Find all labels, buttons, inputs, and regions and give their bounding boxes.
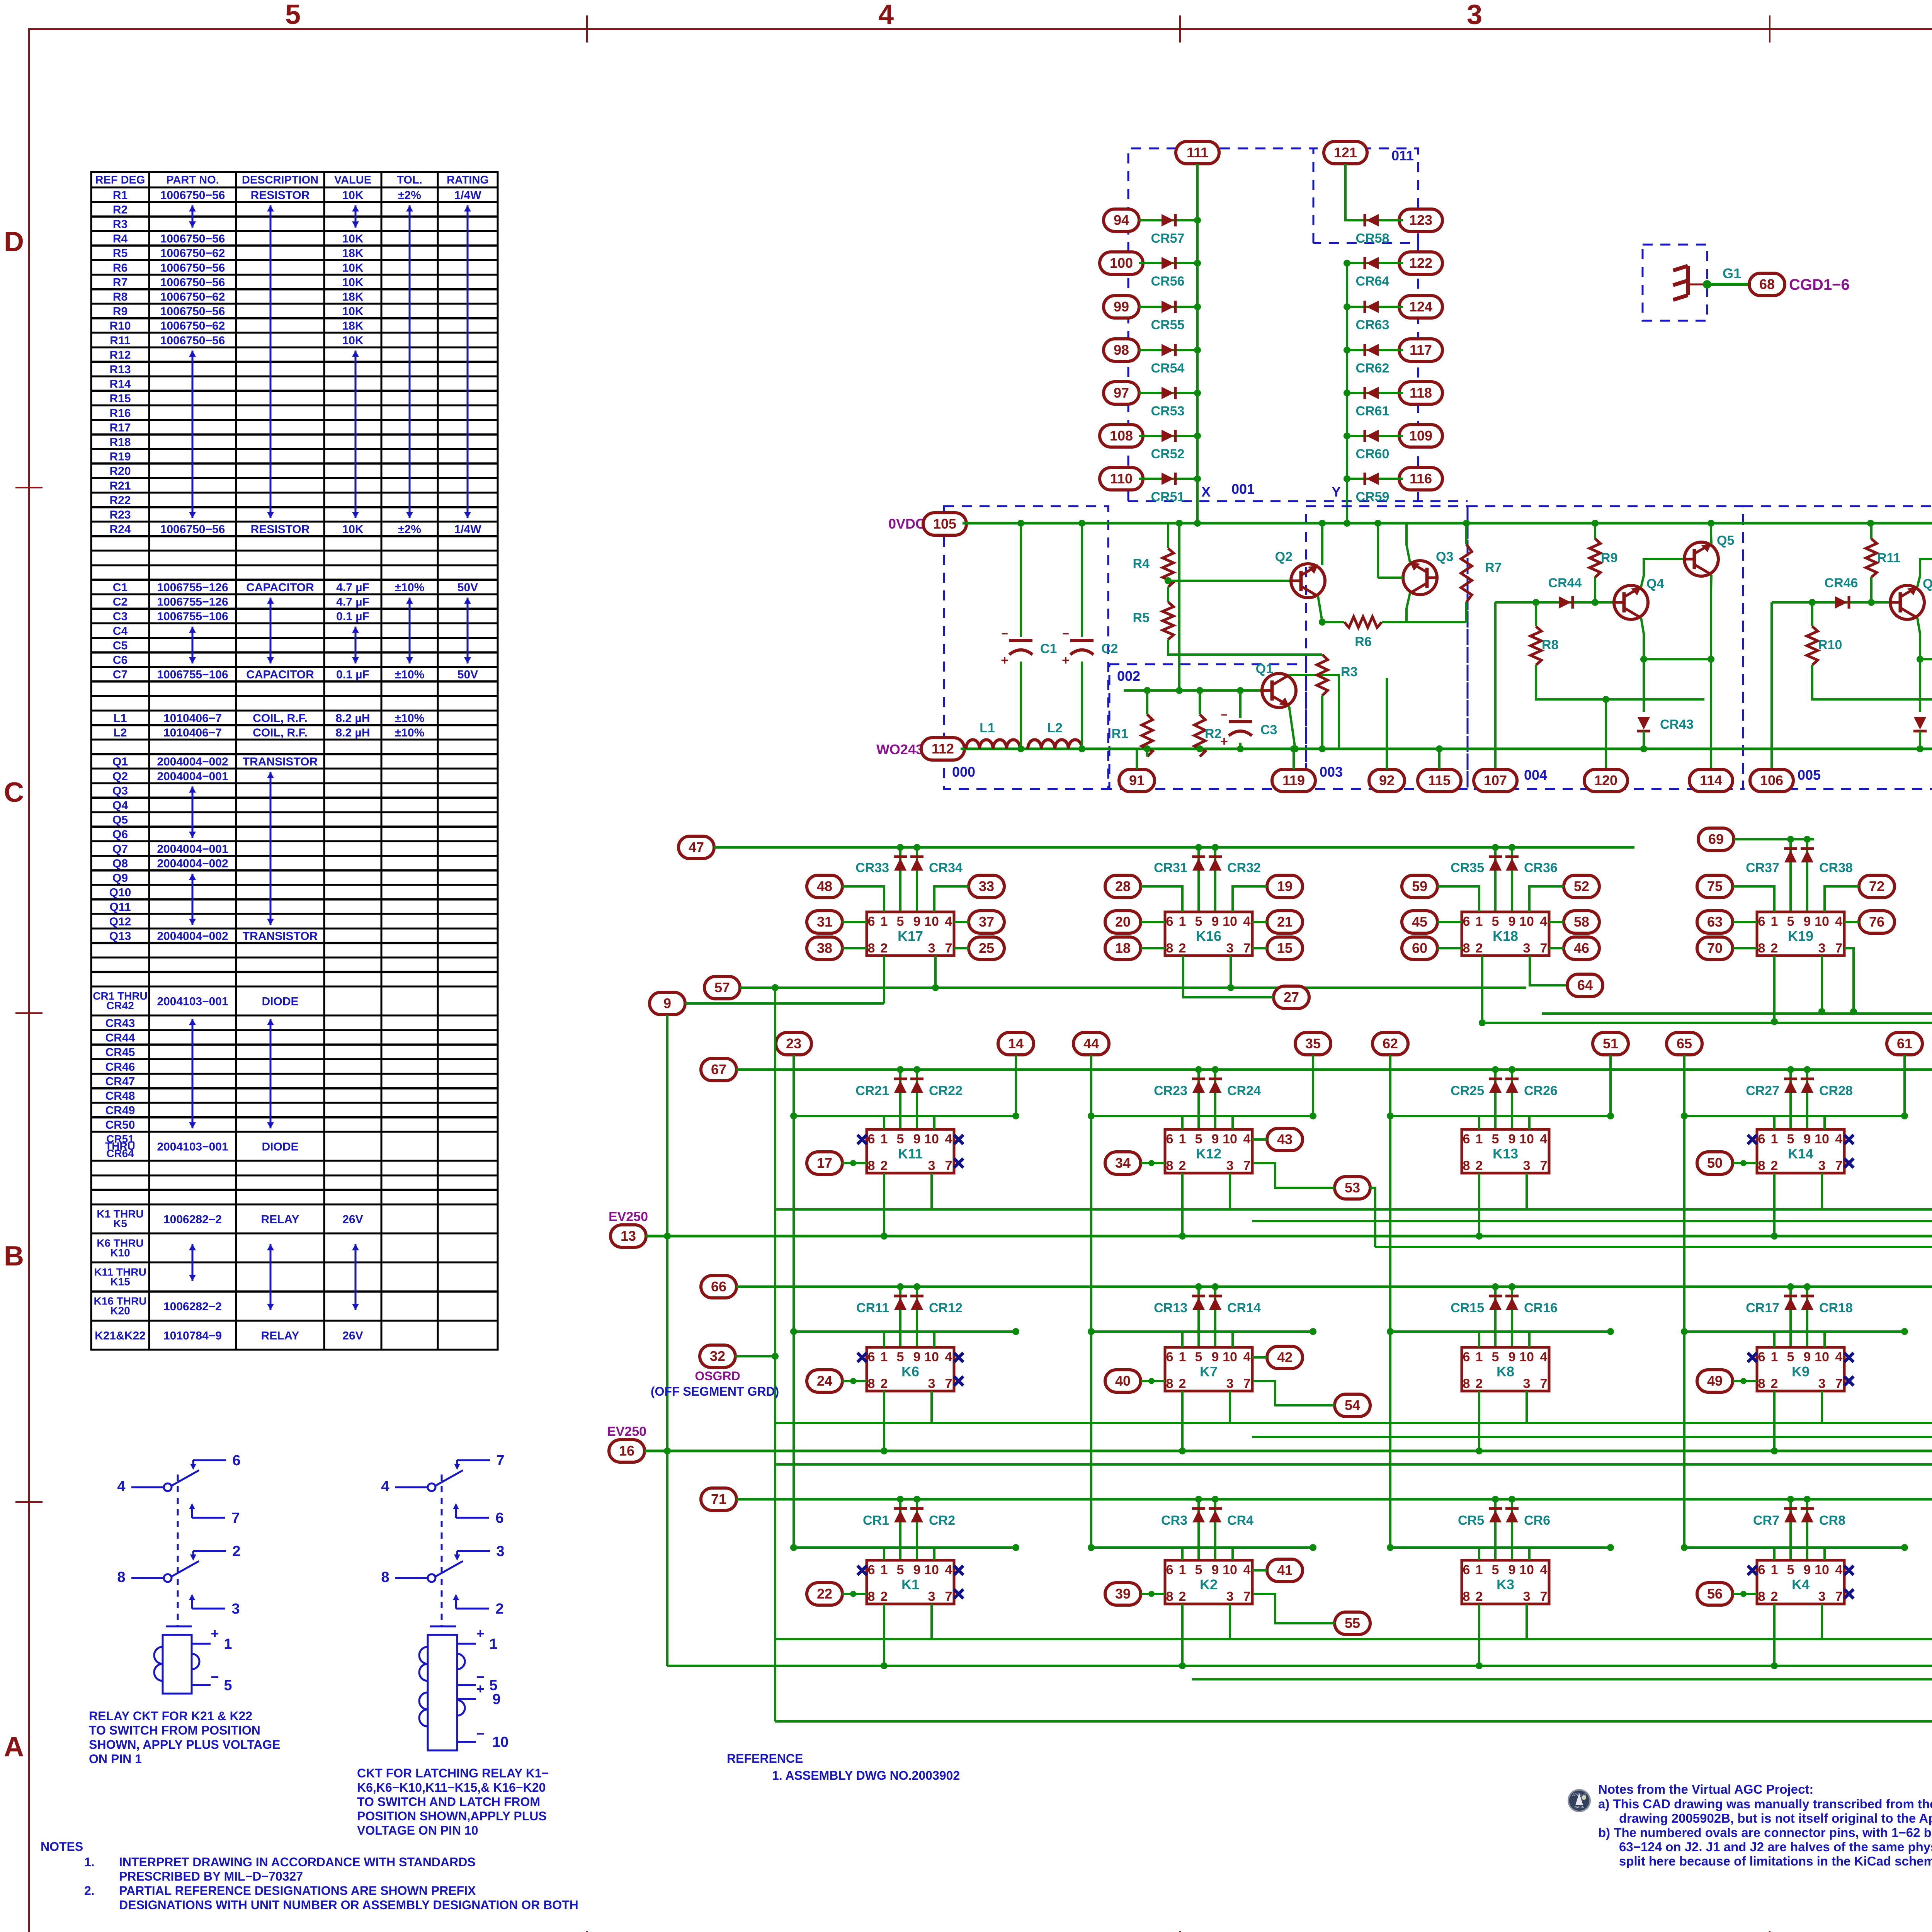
svg-text:1: 1	[1179, 914, 1186, 929]
svg-text:5: 5	[285, 0, 301, 30]
svg-text:C3: C3	[113, 610, 128, 623]
svg-text:R21: R21	[109, 480, 131, 492]
transistor Q6	[1890, 585, 1924, 619]
svg-text:DESIGNATIONS WITH UNIT NUMBER: DESIGNATIONS WITH UNIT NUMBER OR ASSEMBL…	[119, 1898, 578, 1912]
pin 32	[700, 1345, 735, 1367]
svg-text:CR13: CR13	[1154, 1301, 1187, 1315]
wire K19 pin3 drop	[1821, 956, 1823, 1012]
junction CR34	[913, 844, 920, 851]
svg-text:K9: K9	[1792, 1364, 1810, 1379]
svg-text:98: 98	[1114, 342, 1129, 358]
pin 23	[776, 1032, 811, 1055]
dashed box 002	[1109, 664, 1306, 789]
svg-text:001: 001	[1231, 481, 1255, 497]
wire 44 drop	[1090, 1055, 1092, 1116]
svg-text:8: 8	[117, 1569, 125, 1585]
wire 92 up	[1386, 678, 1388, 769]
wire CR44 input rail	[1495, 601, 1526, 604]
wire K8 pin2 drop	[1478, 1391, 1480, 1451]
svg-text:59: 59	[1412, 878, 1427, 894]
svg-text:C2: C2	[1101, 641, 1118, 656]
svg-text:K6,K6−K10,K11−K15,& K16−K20: K6,K6−K10,K11−K15,& K16−K20	[357, 1781, 546, 1794]
wire 94 to CR57	[1139, 219, 1197, 221]
wire R9 vertical	[1594, 523, 1596, 539]
svg-text:40: 40	[1115, 1373, 1131, 1389]
wire 48 to pin1	[842, 886, 884, 912]
svg-text:10: 10	[1815, 1563, 1829, 1577]
junction G1	[1703, 280, 1711, 289]
svg-text:60: 60	[1412, 940, 1427, 956]
svg-text:CR12: CR12	[929, 1301, 963, 1315]
svg-text:2004004−002: 2004004−002	[157, 755, 228, 768]
svg-text:8.2 µH: 8.2 µH	[336, 712, 370, 724]
wire vertical 1727	[666, 1236, 668, 1451]
junction CR17	[1787, 1283, 1794, 1290]
svg-text:K14: K14	[1788, 1146, 1813, 1162]
wire CR2 anode	[916, 1499, 918, 1560]
wire mid drop CR43	[1643, 659, 1645, 699]
svg-text:EV250: EV250	[607, 1424, 646, 1439]
svg-text:0.1 µF: 0.1 µF	[336, 668, 369, 681]
svg-text:24: 24	[817, 1373, 832, 1389]
junction C3 top	[1237, 687, 1244, 694]
svg-text:R20: R20	[109, 465, 131, 478]
wire minibus K6	[794, 1330, 1016, 1333]
wire vertical 1727 low	[666, 1451, 668, 1666]
wire 100 to CR56	[1139, 262, 1197, 264]
pin 63	[1697, 911, 1733, 933]
relay K1	[867, 1560, 954, 1604]
svg-text:CR42: CR42	[106, 1000, 134, 1012]
svg-text:Q11: Q11	[109, 901, 131, 913]
svg-text:65: 65	[1677, 1036, 1692, 1051]
svg-text:7: 7	[496, 1452, 504, 1469]
svg-text:1006750−56: 1006750−56	[160, 334, 225, 347]
svg-text:5: 5	[1195, 1132, 1202, 1146]
relay K7	[1165, 1347, 1252, 1391]
wire K9 pin10 stub	[1823, 1332, 1826, 1347]
diode CR64	[1366, 257, 1379, 269]
svg-text:CR34: CR34	[929, 861, 963, 875]
svg-text:50: 50	[1707, 1155, 1723, 1171]
svg-text:39: 39	[1115, 1586, 1131, 1602]
wire CR38 anode	[1806, 839, 1808, 912]
svg-text:105: 105	[933, 516, 956, 532]
svg-text:10: 10	[924, 914, 939, 929]
wire K1 pin2 drop	[883, 1604, 885, 1666]
svg-text:6: 6	[1166, 1350, 1173, 1364]
pin 34	[1105, 1152, 1141, 1174]
pin 38	[807, 937, 842, 959]
diode CR16	[1506, 1298, 1518, 1310]
junction CR28	[1804, 1066, 1811, 1073]
svg-text:2004103−001: 2004103−001	[157, 1141, 228, 1153]
svg-text:CR17: CR17	[1746, 1301, 1779, 1315]
wire 107 vertical	[1494, 602, 1497, 769]
junction CR16	[1509, 1283, 1515, 1290]
pin 39	[1105, 1583, 1141, 1605]
diode CR25	[1489, 1080, 1502, 1093]
wire K4 pin1 stub	[1773, 1548, 1776, 1560]
wire row1 right link 2618	[1542, 1012, 1932, 1015]
svg-text:CR51: CR51	[1151, 490, 1185, 504]
svg-text:13: 13	[621, 1228, 636, 1244]
diode CR32	[1209, 858, 1221, 871]
svg-text:8: 8	[1166, 1589, 1173, 1604]
wire CR18 anode	[1806, 1287, 1808, 1347]
junction X CR55	[1194, 303, 1201, 310]
wire K11 pin3 drop	[930, 1173, 933, 1209]
wire Q6 collector	[1917, 559, 1932, 587]
pin 105	[923, 513, 966, 535]
junction X CR52	[1194, 432, 1201, 439]
svg-text:67: 67	[711, 1061, 726, 1077]
svg-text:3: 3	[231, 1601, 240, 1617]
svg-text:5: 5	[224, 1677, 232, 1694]
pin 19	[1267, 875, 1303, 898]
wire Y column stub from 121	[1345, 164, 1347, 220]
pin 98	[1104, 339, 1139, 361]
wire CR62 to 117	[1347, 349, 1403, 351]
svg-text:C5: C5	[113, 639, 128, 652]
svg-text:2: 2	[232, 1543, 240, 1560]
wire 17 to pin8	[842, 1162, 867, 1164]
svg-text:8: 8	[1758, 1158, 1765, 1173]
junction Y CR62	[1344, 347, 1350, 354]
svg-text:2: 2	[1476, 1589, 1483, 1604]
svg-text:CR28: CR28	[1819, 1083, 1853, 1098]
junction base rail R2	[1196, 687, 1203, 694]
dashed box 003	[1306, 506, 1468, 789]
resistor R10	[1811, 602, 1813, 626]
wire CR58 to 123	[1347, 219, 1403, 221]
svg-text:1: 1	[224, 1636, 232, 1652]
wire CR31 anode	[1197, 847, 1200, 912]
wire CR8 anode	[1806, 1499, 1808, 1560]
wire pin4 to 21	[1252, 921, 1267, 923]
junction CR1	[897, 1496, 904, 1503]
svg-text:62: 62	[1383, 1036, 1398, 1051]
wire K19 pin2 drop	[1773, 956, 1776, 1022]
junction CR18	[1804, 1283, 1811, 1290]
wire minibus K3	[1390, 1546, 1611, 1549]
svg-text:NOTES: NOTES	[41, 1840, 83, 1854]
svg-text:2004004−001: 2004004−001	[157, 770, 228, 783]
svg-text:Q3: Q3	[112, 784, 128, 797]
wire K2 pin10 stub	[1231, 1548, 1234, 1560]
svg-text:9: 9	[1804, 1132, 1811, 1146]
svg-text:R7: R7	[1485, 560, 1502, 575]
pin 122	[1399, 252, 1442, 274]
diode CR2	[911, 1510, 923, 1522]
svg-text:CR50: CR50	[105, 1119, 135, 1131]
svg-text:99: 99	[1114, 299, 1129, 315]
svg-text:CR4: CR4	[1227, 1513, 1253, 1528]
wire row3 under1b	[1252, 1436, 1932, 1438]
svg-text:32: 32	[710, 1348, 725, 1364]
svg-text:7: 7	[231, 1510, 240, 1526]
wire K2 pin2 drop	[1181, 1604, 1184, 1666]
svg-text:121: 121	[1334, 145, 1357, 160]
wire Q4 collector	[1641, 559, 1684, 587]
svg-text:CR1: CR1	[863, 1513, 889, 1528]
pin 71	[701, 1488, 736, 1510]
svg-text:R13: R13	[109, 363, 131, 376]
pin 47	[679, 836, 714, 859]
svg-text:7: 7	[1540, 1158, 1548, 1173]
svg-text:011: 011	[1391, 148, 1414, 163]
svg-text:2.: 2.	[84, 1884, 95, 1898]
svg-text:K16: K16	[1196, 928, 1221, 944]
chassis ground G1	[1673, 266, 1688, 300]
svg-text:7: 7	[1540, 1376, 1548, 1391]
svg-text:K19: K19	[1788, 928, 1813, 944]
diode CR59	[1366, 473, 1379, 485]
relay K17	[867, 912, 954, 956]
svg-text:Notes from the Virtual AGC Pro: Notes from the Virtual AGC Project:	[1598, 1782, 1813, 1796]
inductor L2	[1028, 740, 1082, 749]
junction Y CR59	[1344, 475, 1350, 482]
junction 0VDC bus	[1708, 520, 1714, 527]
pin 100	[1100, 252, 1143, 274]
svg-text:118: 118	[1410, 385, 1432, 401]
svg-text:1006755−106: 1006755−106	[157, 610, 228, 623]
svg-text:CR46: CR46	[105, 1061, 135, 1073]
svg-text:Q12: Q12	[109, 915, 131, 928]
junction R11 base	[1868, 599, 1875, 606]
pin 17	[807, 1152, 842, 1174]
svg-text:26V: 26V	[342, 1213, 363, 1226]
pin 70	[1697, 937, 1733, 959]
svg-text:109: 109	[1409, 428, 1432, 444]
wire K7 pin2 drop	[1181, 1391, 1184, 1451]
wire 51 drop	[1609, 1055, 1612, 1116]
svg-text:R11: R11	[1877, 551, 1901, 565]
wire K7 pin10 stub	[1231, 1332, 1234, 1347]
svg-text:8: 8	[1166, 1376, 1173, 1391]
svg-text:9: 9	[1804, 914, 1811, 929]
svg-text:±10%: ±10%	[395, 581, 425, 594]
wire K2 pin3 drop	[1229, 1604, 1231, 1639]
pin 75	[1697, 875, 1733, 898]
svg-text:38: 38	[817, 940, 832, 956]
pin 22	[807, 1583, 842, 1605]
junction Y CR61	[1344, 389, 1350, 396]
wire CR43 to bus	[1643, 731, 1645, 749]
wire R1 bottom	[1146, 749, 1148, 757]
wire CR4 anode	[1214, 1499, 1216, 1560]
svg-text:5: 5	[897, 1563, 904, 1577]
pin 121	[1324, 141, 1367, 164]
svg-text:±10%: ±10%	[395, 726, 425, 739]
svg-text:106: 106	[1760, 772, 1783, 788]
svg-text:split here because of limitati: split here because of limitations in the…	[1619, 1854, 1932, 1868]
svg-text:CR6: CR6	[1524, 1513, 1550, 1528]
sketch arm 1	[172, 1470, 199, 1486]
svg-text:Q6: Q6	[112, 828, 128, 841]
diode CR43	[1643, 699, 1645, 712]
junction R9 base	[1592, 599, 1599, 606]
svg-text:10: 10	[1223, 1350, 1237, 1364]
transistor Q4	[1614, 585, 1648, 619]
wire C2 vertical	[1081, 523, 1083, 637]
pin 14	[998, 1032, 1034, 1055]
svg-text:10: 10	[1519, 1563, 1534, 1577]
wire 119 up	[1293, 749, 1295, 769]
svg-text:CR14: CR14	[1227, 1301, 1261, 1315]
wire K14 pin2 drop	[1773, 1173, 1776, 1236]
pin 106	[1750, 769, 1793, 792]
pin 41	[1267, 1559, 1303, 1582]
svg-text:114: 114	[1700, 772, 1722, 788]
pin 111	[1176, 141, 1219, 164]
svg-text:CR59: CR59	[1356, 490, 1389, 504]
svg-text:C4: C4	[113, 625, 128, 638]
svg-text:26V: 26V	[342, 1329, 363, 1342]
diode CR57	[1162, 214, 1174, 226]
pin 49	[1697, 1370, 1733, 1392]
wire K9 pin1 stub	[1773, 1332, 1776, 1347]
wire K6 pin2 drop	[883, 1391, 885, 1451]
pin 50	[1697, 1152, 1733, 1174]
wire K14 pin3 drop	[1821, 1173, 1823, 1209]
junction X CR53	[1194, 389, 1201, 396]
junction CR15	[1492, 1283, 1499, 1290]
svg-text:10K: 10K	[342, 276, 363, 289]
junction CR6	[1509, 1496, 1515, 1503]
svg-text:−: −	[1062, 628, 1069, 640]
junction 0VDC bus	[1867, 520, 1874, 527]
svg-text:2004004−002: 2004004−002	[157, 857, 228, 870]
wire Q1 emitter	[1289, 706, 1295, 749]
svg-text:4: 4	[945, 1563, 952, 1577]
wire 65 drop	[1683, 1055, 1685, 1116]
svg-text:10: 10	[1815, 914, 1829, 929]
pin 37	[969, 911, 1004, 933]
svg-text:CR3: CR3	[1161, 1513, 1187, 1528]
wire Q5 emitter down	[1711, 575, 1711, 659]
svg-text:Q1: Q1	[1256, 662, 1273, 676]
svg-text:DIODE: DIODE	[262, 995, 298, 1008]
svg-text:1010784−9: 1010784−9	[163, 1329, 222, 1342]
svg-text:6: 6	[1463, 1563, 1470, 1577]
diode CR18	[1801, 1298, 1813, 1310]
svg-text:R2: R2	[113, 203, 128, 216]
svg-text:Q5: Q5	[112, 814, 128, 827]
pin 67	[701, 1058, 736, 1081]
svg-text:9: 9	[1804, 1563, 1811, 1577]
svg-text:CR43: CR43	[105, 1017, 135, 1030]
svg-text:10: 10	[1815, 1132, 1829, 1146]
junction CR46 rail	[1809, 599, 1816, 606]
svg-text:L2: L2	[113, 726, 127, 739]
svg-text:8: 8	[1463, 941, 1470, 956]
svg-text:25: 25	[979, 940, 994, 956]
wire K4 pin10 stub	[1823, 1548, 1826, 1560]
svg-text:R4: R4	[1133, 556, 1150, 571]
svg-text:A: A	[4, 1731, 24, 1762]
svg-text:2: 2	[1179, 1376, 1186, 1391]
relay K12	[1165, 1129, 1252, 1173]
wire pin7 to 46	[1549, 947, 1564, 949]
wire K3 pin2 drop	[1478, 1604, 1480, 1666]
svg-text:1010406−7: 1010406−7	[163, 726, 222, 739]
wire K9 pin3 drop	[1821, 1391, 1823, 1423]
pin 76	[1859, 911, 1895, 933]
svg-text:7: 7	[1243, 1158, 1251, 1173]
svg-text:9: 9	[1804, 1350, 1811, 1364]
pin 15	[1267, 937, 1303, 959]
sketch arm 2	[172, 1561, 199, 1577]
junction Y CR64	[1344, 260, 1350, 267]
diode CR51	[1162, 473, 1174, 485]
wire CR15 anode	[1494, 1287, 1497, 1347]
svg-text:C1: C1	[1040, 641, 1057, 656]
svg-text:123: 123	[1409, 212, 1432, 228]
svg-text:005: 005	[1798, 767, 1821, 783]
diode CR37	[1784, 850, 1797, 862]
wire R10 bottom loop	[1812, 665, 1932, 699]
svg-text:+: +	[211, 1626, 219, 1641]
svg-text:7: 7	[1835, 1158, 1843, 1173]
svg-text:POSITION SHOWN,APPLY PLUS: POSITION SHOWN,APPLY PLUS	[357, 1809, 547, 1823]
svg-text:69: 69	[1708, 831, 1724, 847]
svg-text:4: 4	[945, 1132, 952, 1146]
svg-text:CR27: CR27	[1746, 1083, 1779, 1098]
svg-text:R9: R9	[113, 305, 128, 318]
svg-text:K17: K17	[898, 928, 923, 944]
wire K4 pin3 drop	[1821, 1604, 1823, 1639]
wire row3 under1	[775, 1422, 1932, 1424]
pin 108	[1100, 425, 1143, 447]
svg-text:−: −	[1221, 709, 1228, 721]
svg-text:CR56: CR56	[1151, 274, 1185, 289]
pin 117	[1399, 339, 1442, 361]
wire CR13 anode	[1197, 1287, 1200, 1347]
svg-text:SHOWN, APPLY PLUS VOLTAGE: SHOWN, APPLY PLUS VOLTAGE	[89, 1738, 280, 1752]
wire CR36 anode	[1511, 847, 1513, 912]
svg-text:K10: K10	[110, 1247, 130, 1259]
wire bus row4 b	[667, 1665, 1932, 1667]
svg-text:CR52: CR52	[1151, 447, 1185, 461]
pin 52	[1564, 875, 1599, 898]
wire 39 to pin8	[1141, 1593, 1165, 1595]
svg-text:R3: R3	[113, 218, 128, 231]
transistor Q5	[1684, 542, 1718, 576]
wire 14 drop	[1015, 1055, 1017, 1116]
diode CR53	[1162, 387, 1174, 399]
relay K8	[1462, 1347, 1549, 1391]
svg-text:4: 4	[1243, 1350, 1251, 1364]
wire CR17 anode	[1789, 1287, 1792, 1347]
svg-text:R7: R7	[113, 276, 128, 289]
wire 20 to pin6	[1141, 921, 1165, 923]
wire 34 to pin8	[1141, 1162, 1165, 1164]
svg-text:Q9: Q9	[112, 872, 128, 884]
svg-text:6: 6	[495, 1510, 503, 1526]
wire 91 up	[1136, 749, 1138, 769]
wire 61 drop	[1903, 1055, 1906, 1116]
svg-text:−: −	[1001, 628, 1008, 640]
junction 0VDC bus	[1344, 520, 1350, 527]
svg-text:1: 1	[1476, 914, 1483, 929]
svg-text:+: +	[1001, 653, 1009, 668]
svg-text:120: 120	[1594, 772, 1617, 788]
svg-text:CGD1−6: CGD1−6	[1789, 276, 1850, 293]
pin 16	[609, 1440, 645, 1462]
svg-text:2: 2	[881, 941, 888, 956]
junction Q4 emitter	[1640, 656, 1647, 663]
